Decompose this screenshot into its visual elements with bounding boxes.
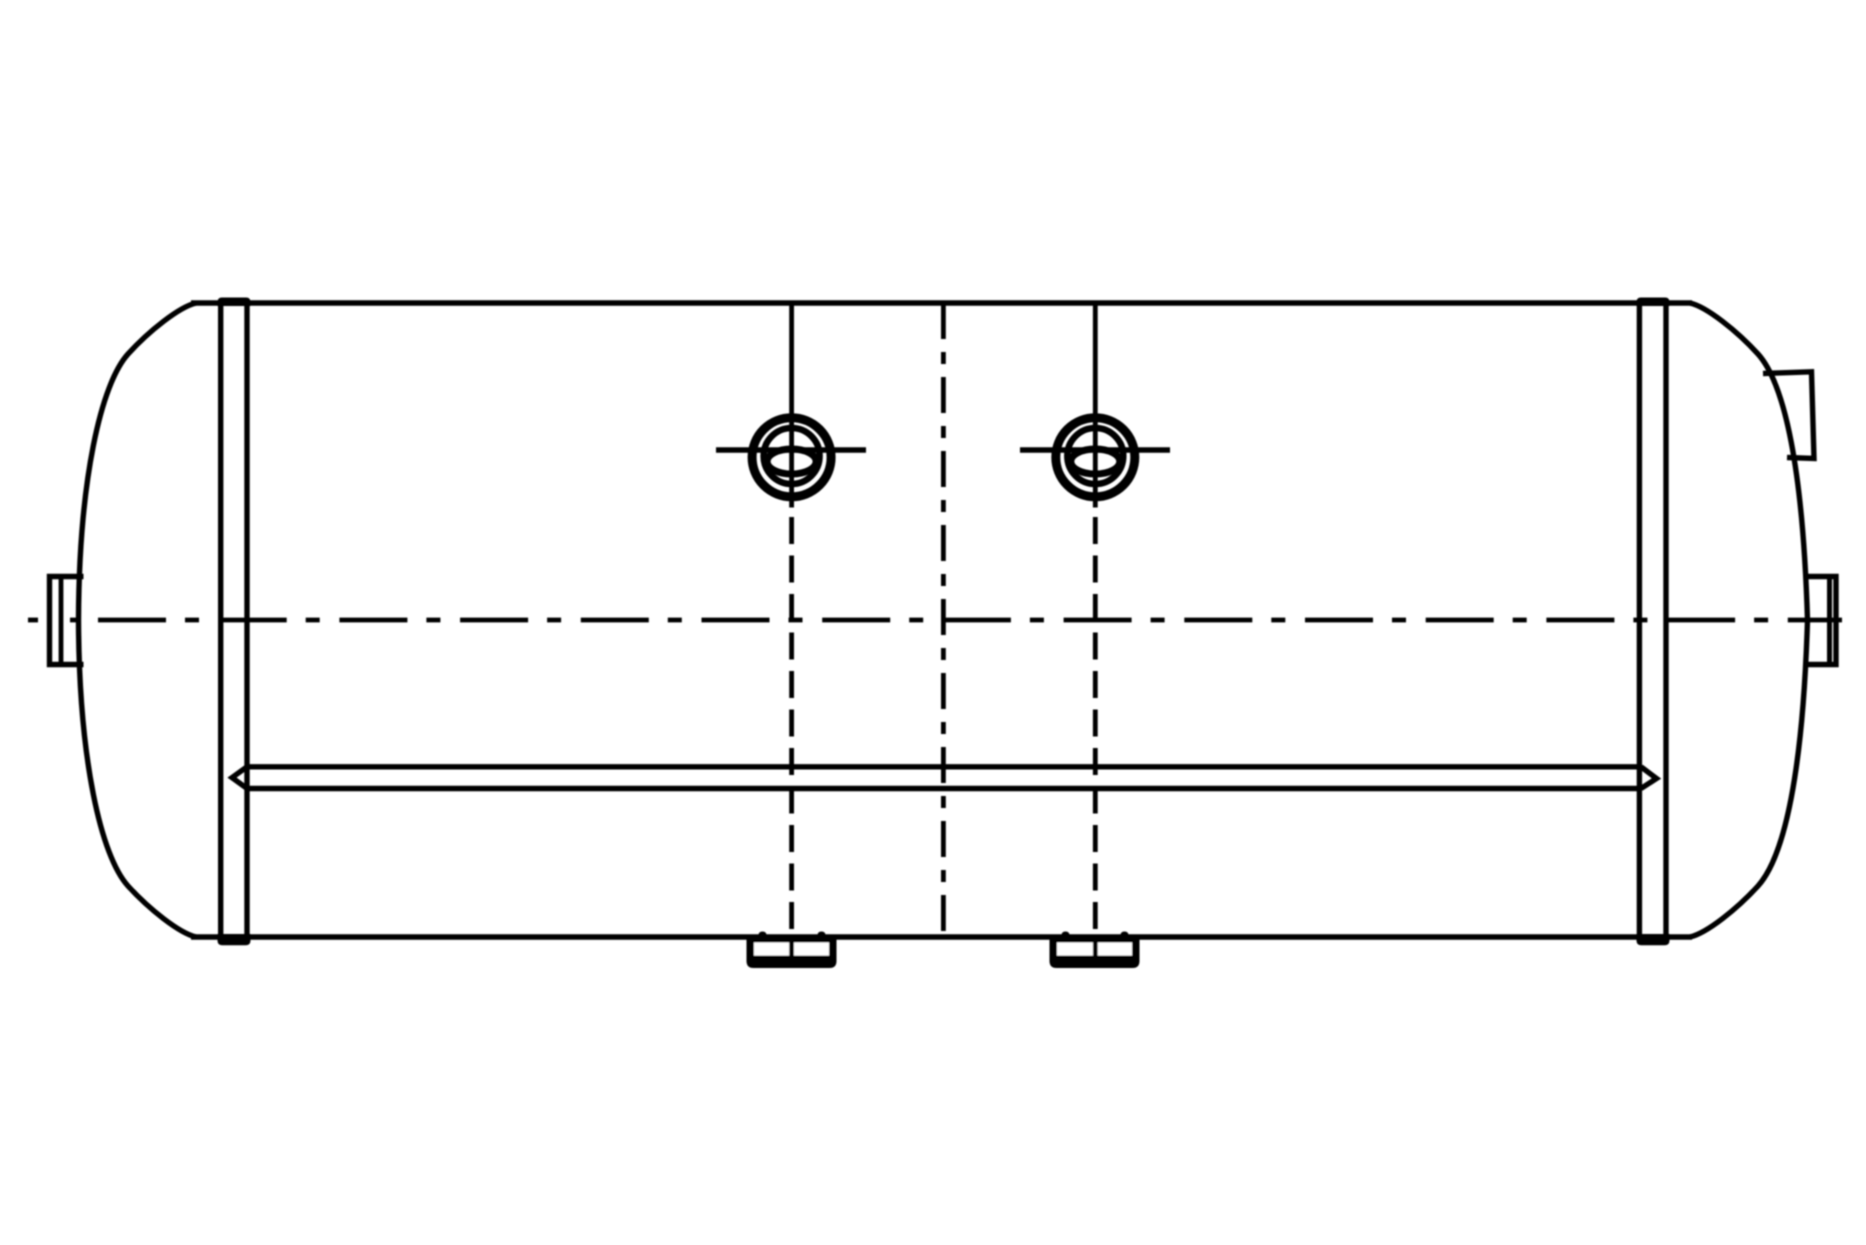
- foot 2 weld bump right: [1121, 932, 1129, 941]
- longitudinal seam upper line: [246, 764, 1642, 769]
- port 1 vertical centerline dashed part: [789, 517, 794, 933]
- foot 1 weld bump left: [759, 932, 767, 941]
- left weld band bottom cap: [218, 934, 251, 945]
- left head dome: [79, 303, 197, 937]
- right weld band bottom cap: [1637, 934, 1670, 945]
- port 1 boss inner circle: [764, 428, 820, 484]
- right weld band line 2: [1663, 300, 1668, 941]
- longitudinal seam lower line: [246, 786, 1642, 791]
- seam left chevron: [232, 767, 247, 789]
- horizontal centerline start tick: [28, 618, 38, 623]
- horizontal centerline: [70, 618, 1842, 623]
- port 2 boss outer circle: [1056, 418, 1135, 497]
- port 2 vertical centerline dashed part: [1093, 517, 1098, 933]
- foot 2 bracket body: [1050, 938, 1140, 968]
- port 2 vertical centerline solid part: [1093, 303, 1098, 508]
- left end port inner face line: [59, 579, 64, 663]
- right end port inner face line: [1827, 579, 1832, 663]
- foot 2 centerline through bracket: [1093, 938, 1098, 957]
- left weld band line 1: [218, 300, 223, 941]
- seam right chevron: [1641, 767, 1657, 789]
- foot 1 centerline through bracket: [789, 938, 794, 957]
- foot 2 weld bump left: [1062, 932, 1070, 941]
- port 2 horizontal crosshair: [1020, 447, 1170, 452]
- foot 2 bracket slot: [1057, 943, 1132, 956]
- foot 1 bracket body: [747, 938, 837, 968]
- left weld band top cap: [218, 298, 251, 307]
- upper right head fitting: [1763, 372, 1814, 459]
- right end port fitting rectangle: [1807, 577, 1836, 665]
- tank shell bottom line: [191, 934, 1692, 939]
- right weld band top cap: [1637, 298, 1670, 307]
- left end port fitting rectangle: [50, 577, 84, 665]
- foot 1 weld bump right: [818, 932, 826, 941]
- foot 1 bracket slot: [754, 943, 829, 956]
- left weld band line 2: [244, 300, 249, 941]
- port 2 boss inner circle: [1067, 428, 1123, 484]
- port 2 bore ellipse: [1071, 449, 1120, 474]
- right weld band line 1: [1637, 300, 1642, 941]
- tank shell top line: [191, 300, 1692, 305]
- port 1 horizontal crosshair: [716, 447, 866, 452]
- port 1 boss outer circle: [752, 418, 831, 497]
- port 1 bore ellipse: [767, 449, 816, 474]
- vertical centerline mid tank: [941, 303, 946, 937]
- port 1 vertical centerline solid part: [789, 303, 794, 508]
- right head dome: [1690, 303, 1808, 937]
